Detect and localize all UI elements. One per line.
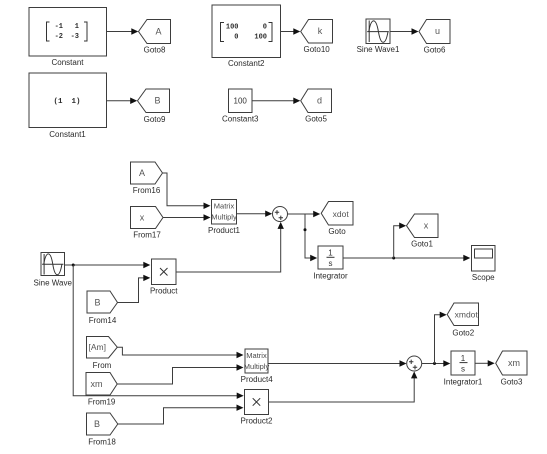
svg-text:u: u bbox=[435, 26, 440, 36]
wire From to Product4 input1 bbox=[117, 347, 243, 358]
integrator Integrator bbox=[313, 246, 348, 280]
wire branch to Goto2 bbox=[435, 312, 447, 364]
sine wave source Sine Wave1 bbox=[357, 19, 400, 54]
svg-text:1: 1 bbox=[328, 249, 333, 258]
svg-text:Integrator: Integrator bbox=[313, 271, 348, 280]
wire Product1 to Sum bbox=[237, 211, 273, 217]
svg-text:100: 100 bbox=[254, 33, 267, 41]
svg-text:-1: -1 bbox=[55, 23, 63, 31]
svg-text:s: s bbox=[461, 364, 465, 373]
svg-text:0: 0 bbox=[234, 33, 238, 41]
wire Sum to Goto xdot bbox=[288, 211, 321, 217]
sum Sum1 bbox=[407, 356, 422, 371]
svg-text:From: From bbox=[93, 361, 112, 370]
wire Sum1 to Integrator1 bbox=[422, 360, 451, 366]
wire Constant1 to Goto9 bbox=[107, 98, 138, 104]
svg-text:Goto3: Goto3 bbox=[501, 377, 523, 386]
wire branch Sum output down to Integrator bbox=[305, 214, 317, 261]
goto Goto9 bbox=[138, 89, 170, 124]
svg-text:Goto9: Goto9 bbox=[144, 115, 166, 124]
svg-text:From18: From18 bbox=[88, 438, 116, 447]
wire From14 to Product input2 bbox=[118, 275, 151, 303]
goto Goto6 bbox=[419, 20, 450, 55]
wire Constant3 to Goto5 bbox=[252, 98, 300, 104]
constant Constant3 bbox=[222, 89, 259, 124]
wire Integrator1 to Goto3 bbox=[475, 360, 495, 366]
from From19 bbox=[86, 373, 117, 407]
svg-text:From14: From14 bbox=[89, 316, 117, 325]
sum Sum bbox=[273, 207, 288, 222]
goto Goto5 bbox=[301, 89, 332, 124]
from From18 bbox=[87, 413, 118, 447]
svg-text:Multiply: Multiply bbox=[211, 212, 237, 221]
product Product2 bbox=[240, 390, 273, 426]
svg-text:1: 1 bbox=[461, 354, 466, 363]
svg-text:A: A bbox=[139, 168, 145, 178]
sine wave source Sine Wave bbox=[34, 253, 73, 288]
svg-text:Constant1: Constant1 bbox=[49, 130, 86, 139]
wire Sine Wave to Product input1 bbox=[65, 262, 151, 268]
from From16 bbox=[131, 162, 163, 195]
goto Goto8 bbox=[139, 20, 171, 55]
svg-text:Constant: Constant bbox=[51, 58, 84, 67]
from From14 bbox=[87, 291, 118, 325]
svg-text:1: 1 bbox=[75, 23, 79, 31]
svg-text:xm: xm bbox=[508, 358, 520, 368]
svg-text:B: B bbox=[94, 297, 100, 307]
wire Sine Wave down to Product2 input1 bbox=[73, 265, 244, 399]
wire From19 to Product4 input2 bbox=[117, 364, 243, 384]
svg-text:-2: -2 bbox=[55, 33, 63, 41]
wire Integrator to Scope bbox=[343, 255, 470, 261]
svg-text:Goto8: Goto8 bbox=[144, 45, 166, 54]
svg-text:From17: From17 bbox=[133, 231, 161, 240]
scope Scope bbox=[472, 246, 496, 283]
svg-text:[Am]: [Am] bbox=[88, 342, 105, 352]
svg-text:xm: xm bbox=[91, 379, 103, 389]
matrix product Product1 bbox=[208, 200, 241, 236]
svg-text:Scope: Scope bbox=[472, 273, 495, 282]
svg-text:Goto5: Goto5 bbox=[305, 115, 327, 124]
svg-text:Goto1: Goto1 bbox=[411, 239, 433, 248]
svg-text:Constant2: Constant2 bbox=[228, 59, 265, 68]
svg-text:-3: -3 bbox=[71, 33, 79, 41]
constant Constant1 bbox=[29, 73, 107, 139]
svg-text:100: 100 bbox=[226, 24, 239, 32]
svg-text:d: d bbox=[317, 95, 322, 105]
svg-text:x: x bbox=[140, 212, 145, 222]
svg-text:B: B bbox=[94, 419, 100, 429]
svg-text:Matrix: Matrix bbox=[214, 201, 235, 210]
svg-text:Multiply: Multiply bbox=[244, 362, 270, 371]
wire Product to Sum bottom input bbox=[176, 222, 284, 272]
svg-text:From19: From19 bbox=[88, 398, 116, 407]
svg-text:A: A bbox=[155, 26, 161, 36]
svg-text:From16: From16 bbox=[133, 186, 161, 195]
svg-text:Product1: Product1 bbox=[208, 226, 241, 235]
junction dot Sine Wave output bbox=[72, 264, 75, 267]
svg-text:100: 100 bbox=[234, 96, 248, 105]
constant Constant2 bbox=[212, 5, 281, 68]
svg-text:Goto6: Goto6 bbox=[424, 45, 446, 54]
constant Constant bbox=[29, 8, 107, 68]
wire From18 to Product2 input2 bbox=[118, 405, 244, 425]
svg-text:0: 0 bbox=[263, 24, 267, 32]
goto Goto1 bbox=[407, 214, 439, 248]
wire Constant to Goto8 bbox=[107, 28, 139, 34]
svg-text:k: k bbox=[318, 26, 323, 36]
svg-text:(1 1): (1 1) bbox=[53, 98, 80, 106]
svg-text:s: s bbox=[329, 259, 333, 268]
goto Goto (xdot) bbox=[321, 202, 353, 237]
goto Goto10 bbox=[301, 20, 333, 54]
wire From17 to Product1 input2 bbox=[163, 214, 211, 220]
junction dot on branch bbox=[304, 228, 307, 231]
svg-text:xmdot: xmdot bbox=[455, 309, 479, 319]
wire Product4 to Sum1 bbox=[268, 360, 407, 366]
svg-text:x: x bbox=[424, 221, 429, 231]
svg-text:xdot: xdot bbox=[333, 209, 350, 219]
svg-text:Matrix: Matrix bbox=[246, 351, 267, 360]
svg-text:Product2: Product2 bbox=[240, 416, 273, 425]
svg-text:Product: Product bbox=[150, 287, 178, 296]
svg-text:Constant3: Constant3 bbox=[222, 115, 259, 124]
svg-text:B: B bbox=[154, 95, 160, 105]
from From17 bbox=[131, 207, 164, 240]
wire branch to Goto1 bbox=[394, 223, 407, 259]
svg-text:Sine Wave: Sine Wave bbox=[34, 279, 73, 288]
svg-text:Goto10: Goto10 bbox=[303, 45, 330, 54]
svg-text:Goto: Goto bbox=[328, 227, 346, 236]
svg-text:Goto2: Goto2 bbox=[452, 329, 474, 338]
from From ([Am]) bbox=[87, 337, 118, 371]
junction dot Integrator output bbox=[392, 257, 395, 260]
goto Goto2 (xmdot) bbox=[447, 303, 478, 338]
wire Sine Wave1 to Goto6 bbox=[390, 28, 419, 34]
matrix product Product4 bbox=[241, 349, 274, 384]
svg-text:Sine Wave1: Sine Wave1 bbox=[357, 45, 400, 54]
wire Product2 to Sum1 bottom input bbox=[269, 371, 418, 402]
junction dot Sum1 output bbox=[433, 362, 436, 365]
svg-text:Product4: Product4 bbox=[241, 375, 274, 384]
goto Goto3 (xm) bbox=[496, 351, 527, 386]
integrator Integrator1 bbox=[444, 351, 483, 386]
wire Constant2 to Goto10 bbox=[281, 28, 301, 34]
svg-text:Integrator1: Integrator1 bbox=[444, 377, 483, 386]
product Product bbox=[150, 259, 178, 296]
wire From16 to Product1 input1 bbox=[163, 173, 211, 209]
